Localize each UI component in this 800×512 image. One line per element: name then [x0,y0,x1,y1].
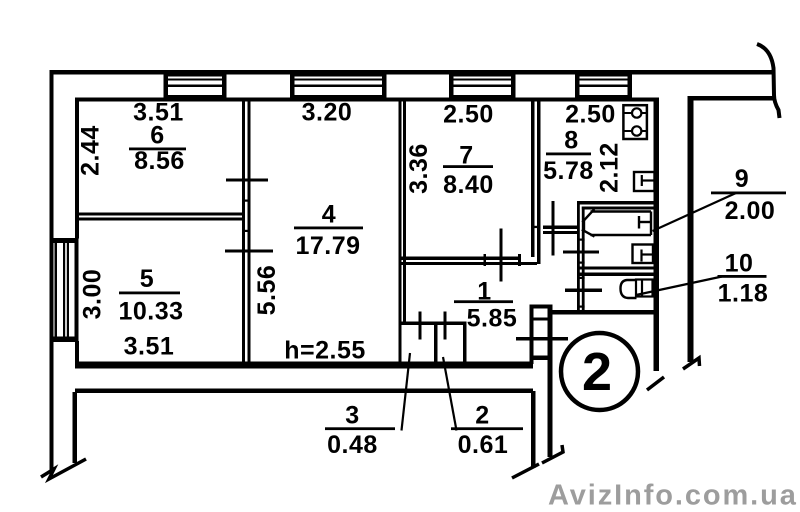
wall: rooms 6/5 vs 4 divider left line [242,101,245,362]
svg-text:2: 2 [475,402,489,430]
window W3 top wall [449,72,516,99]
wall: room 7/8 divider left line [531,101,535,257]
fraction line room 5 [119,292,180,295]
svg-text:2.50: 2.50 [565,101,616,129]
wall: left inner line above window [75,98,79,239]
wall: kitchen-corridor line 2 [543,231,578,234]
wall seam bathroom wall 1 [577,239,585,241]
svg-text:9: 9 [735,165,749,193]
entrance door jamb A [530,305,534,364]
wall: bathroom left inner line [582,207,585,311]
wall: top inner line left part [75,98,659,102]
wall seam bathroom wall 3 [577,277,585,279]
svg-text:0.48: 0.48 [327,431,378,459]
wall: room 7 bottom line 1 [401,257,520,261]
bathtub [582,209,651,236]
leader line label 9 [653,193,737,231]
svg-text:8.56: 8.56 [134,147,185,175]
closet divider [434,322,438,362]
toilet [621,280,653,299]
svg-text:3: 3 [345,402,359,430]
wall: rooms 6/5 divider line 1 [79,213,242,216]
wall: tub/toilet divider line 1 [577,267,659,270]
window W2 top wall [290,72,387,99]
svg-text:8: 8 [564,127,578,155]
leader line label 2 [443,357,457,431]
bathroom sink [633,245,654,264]
svg-text:5: 5 [140,265,154,293]
wall: porch left inner line [73,392,78,463]
wall seam bathroom wall 2 [577,262,585,264]
door tick kitchen [552,201,555,256]
wall seam 6/4 wall 1 [242,200,251,202]
fraction line room 6 [129,148,186,151]
entrance door tick 1 [533,318,548,321]
wall: porch top line [75,389,533,394]
break mark bottom-left [41,459,86,479]
fraction line closet 2 [451,427,523,430]
wall: stairwell wall B [548,305,553,457]
wall: apartment right wall [654,98,660,372]
svg-text:5.78: 5.78 [543,157,594,185]
wall: left outer line [50,70,54,471]
fraction line room 7 [443,165,493,168]
svg-text:2.50: 2.50 [443,101,494,129]
wall seam bathroom wall 4 [577,306,585,308]
svg-text:AvizInfo.com.ua: AvizInfo.com.ua [548,480,798,512]
window W5 left wall [50,238,79,342]
fraction line toilet [718,275,767,278]
leader line label 10 [636,277,722,296]
svg-text:5.85: 5.85 [467,305,518,333]
svg-text:2.12: 2.12 [596,142,624,193]
wall: bathroom left outer line [577,201,580,311]
wall: bathroom top outer line [577,201,659,205]
circle unit 2 [561,333,638,410]
wall: toilet room bottom wall [552,310,659,315]
fraction line closet 3 [325,427,395,430]
entrance door tick 2 [516,337,568,341]
door jamb cap room 7 [518,254,521,266]
closet top line [399,322,467,326]
fraction line corridor [454,300,513,303]
svg-text:5.56: 5.56 [253,265,281,316]
wall: tub/toilet divider line 2 [577,273,659,277]
svg-text:3.36: 3.36 [405,143,433,194]
leader line label 3 [402,353,411,431]
svg-text:17.79: 17.79 [295,232,360,260]
svg-text:3.20: 3.20 [302,99,353,127]
fraction line kitchen [546,153,591,156]
door tick room 7 [500,229,503,282]
window W1 top wall [164,72,227,99]
svg-text:6: 6 [150,122,164,150]
break mark stairwell wall bottom [542,445,563,463]
wall: porch right wall [531,391,536,468]
wall: room 7 bottom line 2 [401,262,537,265]
wall seam 6/4 wall 2 [242,230,251,232]
stove [623,105,647,139]
wall: rooms 6/5 vs 4 divider right line [248,101,251,362]
door tick toilet [565,289,602,293]
wall: bathroom top inner line [582,207,659,210]
wall seam 7/8 divider [531,226,541,228]
fraction line room 4 [294,227,363,230]
door tick bathroom [563,251,599,254]
wall: room 4/7 divider right line [403,101,406,323]
fraction line bathroom [711,192,786,195]
svg-text:3.51: 3.51 [124,333,175,361]
wall: top outer line [50,70,773,75]
svg-text:4: 4 [322,201,336,229]
svg-text:h=2.55: h=2.55 [284,337,366,365]
break curve top-right [757,44,780,118]
wall: kitchen-corridor line 1 [543,226,578,230]
closet tick 3 [419,312,422,340]
svg-text:2.44: 2.44 [77,125,105,176]
svg-text:8.40: 8.40 [443,171,494,199]
bathtub faucet [639,216,652,229]
svg-text:2: 2 [582,342,612,402]
wall: room 4/7 divider left line [399,101,402,362]
svg-text:10.33: 10.33 [118,298,183,326]
wall: room 7/8 divider right line [537,101,541,264]
wall: rooms 6/5 divider line 2 [79,218,242,221]
wall: top inner line right part [688,96,774,101]
break mark right building wall bottom [683,358,700,369]
door tick room 5 [225,250,273,253]
door tick room 6 [226,179,268,182]
wall: left inner line below window [75,341,79,368]
svg-text:0.61: 0.61 [458,431,509,459]
break mark apartment right wall bottom [647,377,664,390]
svg-text:2.00: 2.00 [725,197,776,225]
svg-text:1.18: 1.18 [718,280,769,308]
closet right edge [463,322,467,362]
closet tick 2 [444,312,447,340]
window W4 top wall [575,72,632,99]
svg-text:3.00: 3.00 [79,269,107,320]
kitchen sink [634,172,655,191]
wall seam room 7 bottom [484,254,487,266]
entrance door top cap [530,305,553,309]
wall: right building wall [688,96,694,362]
wall: apartment bottom wall [75,362,533,369]
entrance door bottom cap [530,356,553,361]
svg-text:10: 10 [725,250,754,278]
break mark porch right bottom [512,464,539,478]
